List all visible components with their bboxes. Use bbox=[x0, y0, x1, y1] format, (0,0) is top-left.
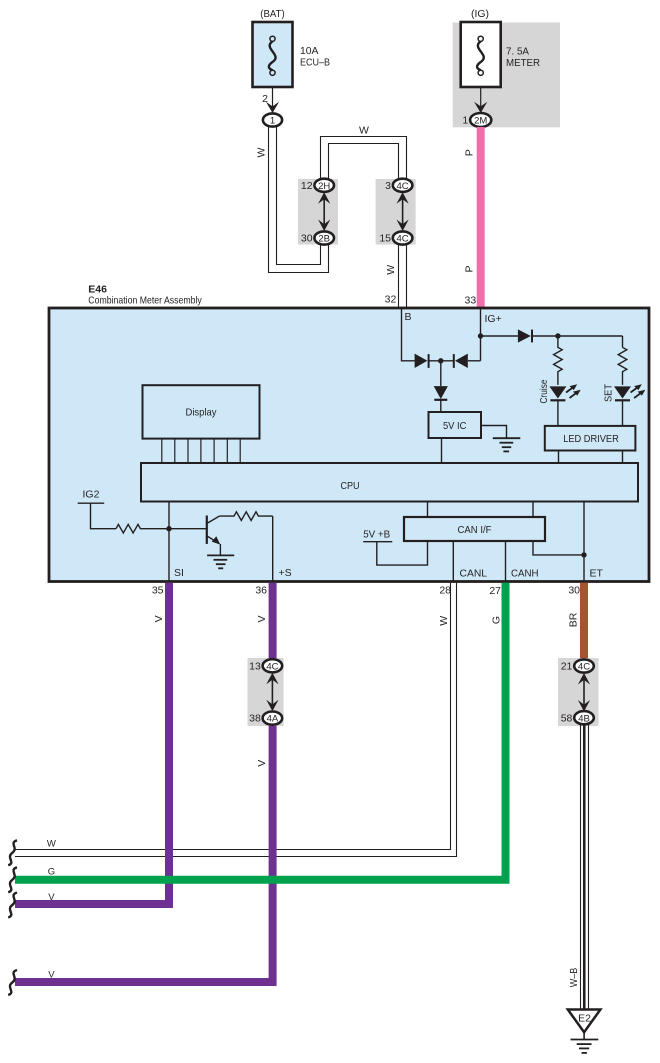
wire W from connector 1 to 2B (white wire) bbox=[269, 127, 329, 273]
CANH wire inside bbox=[505, 541, 507, 582]
svg-text:12: 12 bbox=[301, 180, 313, 192]
IG2 flag bbox=[78, 503, 116, 529]
LED set bbox=[614, 386, 631, 398]
svg-text:38: 38 bbox=[249, 713, 261, 725]
ground E2 bbox=[568, 1010, 601, 1033]
connector block 4C/4A bbox=[248, 658, 284, 726]
svg-text:W: W bbox=[438, 616, 450, 626]
svg-text:SET: SET bbox=[603, 383, 615, 402]
junction node SI bbox=[166, 526, 171, 531]
resistor cruise bbox=[554, 336, 563, 385]
svg-text:2B: 2B bbox=[318, 234, 330, 245]
svg-text:P: P bbox=[464, 265, 476, 272]
wire IG+ to diode D3 bbox=[481, 335, 518, 337]
svg-text:+S: +S bbox=[279, 567, 292, 579]
5V +B flag wire bbox=[363, 541, 427, 565]
wire fuse to connector 1 bbox=[272, 87, 274, 113]
wire W from 4C pin15 to pin 32 (white wire) bbox=[398, 245, 400, 309]
junction node cruise bbox=[555, 333, 560, 338]
connector oval 1 bbox=[263, 113, 282, 126]
connector oval 2B pin 30 bbox=[314, 231, 334, 244]
gray block IG bbox=[453, 23, 560, 128]
svg-text:W: W bbox=[256, 147, 268, 157]
fuse 10A ECU-B bbox=[253, 22, 293, 87]
CPU box bbox=[141, 463, 638, 502]
svg-text:V: V bbox=[256, 760, 268, 767]
svg-text:1: 1 bbox=[462, 115, 468, 127]
wire diode junction bbox=[429, 360, 454, 362]
connector block 2H/2B bbox=[298, 179, 338, 245]
svg-text:IG2: IG2 bbox=[83, 489, 100, 501]
svg-text:4B: 4B bbox=[578, 713, 590, 724]
svg-text:ECU–B: ECU–B bbox=[300, 57, 330, 69]
connector arrows 4C-4A bbox=[271, 677, 273, 708]
svg-text:Display: Display bbox=[186, 407, 218, 419]
svg-text:5V +B: 5V +B bbox=[363, 529, 390, 541]
wire fuse to connector 2M bbox=[480, 87, 482, 113]
svg-text:10A: 10A bbox=[300, 45, 319, 57]
wire V +S purple lower bbox=[15, 718, 273, 982]
svg-text:METER: METER bbox=[506, 57, 540, 69]
svg-text:2M: 2M bbox=[474, 116, 487, 127]
svg-text:36: 36 bbox=[255, 585, 267, 597]
CAN I/F box bbox=[404, 517, 545, 541]
connector oval 4B pin 58 bbox=[574, 711, 594, 724]
svg-text:13: 13 bbox=[249, 660, 261, 672]
wire V SI purple bbox=[15, 583, 169, 904]
display bus lines bbox=[162, 439, 240, 463]
wire CAN I/F to ET bbox=[533, 541, 584, 555]
resistor set bbox=[618, 347, 627, 385]
squiggle connector W bbox=[8, 840, 17, 865]
svg-text:4C: 4C bbox=[397, 234, 409, 245]
svg-text:V: V bbox=[48, 892, 55, 903]
+S wire bbox=[272, 516, 274, 582]
CANL wire inside bbox=[452, 541, 454, 582]
squiggle connector G bbox=[8, 867, 17, 892]
node B wire bbox=[402, 308, 415, 361]
svg-text:Cruise: Cruise bbox=[538, 379, 550, 403]
ground at 5V IC bbox=[481, 426, 507, 439]
svg-text:35: 35 bbox=[152, 585, 164, 597]
wire 5V IC to CPU bbox=[441, 438, 443, 463]
connector arrows 2H-2B bbox=[323, 196, 325, 227]
emitter ground bbox=[219, 544, 221, 556]
svg-text:(BAT): (BAT) bbox=[260, 8, 285, 20]
LED cruise bbox=[549, 386, 566, 398]
svg-text:30: 30 bbox=[568, 585, 580, 597]
diode D3 bbox=[518, 329, 531, 342]
wires LED DRIVER to CPU bbox=[558, 451, 560, 464]
wire W CANL white bbox=[15, 583, 451, 850]
svg-text:V: V bbox=[256, 615, 268, 622]
fuse 7.5A METER bbox=[461, 22, 501, 87]
SI wire bbox=[168, 502, 170, 583]
svg-text:E2: E2 bbox=[578, 1013, 591, 1025]
wire to IG+ line bbox=[468, 360, 481, 362]
connector block 4C/4C bbox=[376, 179, 416, 245]
svg-text:Combination Meter Assembly: Combination Meter Assembly bbox=[88, 295, 202, 307]
svg-text:LED DRIVER: LED DRIVER bbox=[563, 433, 619, 445]
svg-text:28: 28 bbox=[439, 585, 451, 597]
connector arrows 4C-4B bbox=[583, 677, 585, 708]
node IG+ wire bbox=[480, 308, 482, 361]
wire junction to diode D4 bbox=[440, 361, 442, 386]
svg-text:IG+: IG+ bbox=[485, 313, 502, 325]
arrow into connector 2M bbox=[474, 102, 487, 113]
SET branch wire bbox=[622, 336, 624, 347]
svg-text:W–B: W–B bbox=[568, 968, 580, 988]
connector arrows 4C-4C bbox=[402, 196, 404, 227]
5V IC box bbox=[429, 412, 482, 438]
svg-text:G: G bbox=[491, 616, 503, 624]
svg-text:7. 5A: 7. 5A bbox=[506, 46, 529, 58]
svg-text:SI: SI bbox=[174, 567, 184, 579]
svg-text:CANL: CANL bbox=[460, 568, 488, 580]
wire BR ET brown bbox=[580, 583, 588, 666]
squiggle connector V bbox=[8, 893, 17, 918]
connector oval 4C pin 15 bbox=[393, 231, 413, 244]
svg-text:BR: BR bbox=[567, 612, 579, 627]
wire P pink 2M to pin 33 bbox=[477, 127, 485, 309]
svg-text:W: W bbox=[47, 839, 56, 850]
LED DRIVER box bbox=[545, 426, 636, 451]
svg-text:21: 21 bbox=[561, 661, 573, 673]
svg-text:27: 27 bbox=[489, 585, 501, 597]
svg-text:V: V bbox=[48, 970, 55, 981]
svg-text:3: 3 bbox=[385, 180, 391, 192]
svg-text:30: 30 bbox=[301, 233, 313, 245]
svg-text:1: 1 bbox=[270, 116, 275, 127]
connector oval 4A pin 38 bbox=[263, 712, 283, 725]
collector wire and resistor bbox=[219, 512, 272, 521]
diode D1 bbox=[415, 354, 428, 368]
svg-text:15: 15 bbox=[379, 233, 391, 245]
wire V +S purple upper bbox=[269, 583, 277, 666]
combination meter assembly box E46 bbox=[49, 308, 649, 582]
svg-text:2H: 2H bbox=[318, 181, 330, 192]
diode D4 bbox=[434, 386, 448, 399]
svg-text:W: W bbox=[359, 125, 369, 137]
junction node bbox=[438, 358, 443, 363]
svg-text:CAN I/F: CAN I/F bbox=[458, 524, 492, 536]
svg-text:ET: ET bbox=[590, 568, 604, 580]
connector oval 4C pin 3 bbox=[393, 179, 413, 192]
svg-text:5V IC: 5V IC bbox=[443, 420, 467, 432]
wire to 5V IC bbox=[440, 400, 442, 412]
svg-text:4A: 4A bbox=[267, 714, 279, 725]
junction node IG+ bbox=[478, 333, 483, 338]
svg-text:V: V bbox=[153, 615, 165, 622]
svg-text:CANH: CANH bbox=[511, 568, 539, 580]
transistor Q1 bbox=[206, 516, 208, 544]
wire G CANH green bbox=[15, 583, 506, 880]
svg-text:4C: 4C bbox=[578, 662, 590, 673]
connector block 4C/4B bbox=[558, 658, 599, 726]
resistor IG2 bbox=[116, 524, 169, 533]
Display box bbox=[143, 385, 260, 438]
LED set arrows bbox=[631, 387, 639, 393]
squiggle connector V lower bbox=[8, 970, 17, 995]
svg-text:(IG): (IG) bbox=[471, 8, 489, 20]
connector oval 4C pin 21 bbox=[574, 659, 594, 672]
svg-text:32: 32 bbox=[385, 294, 397, 306]
svg-text:CPU: CPU bbox=[341, 480, 360, 492]
connector oval 4C pin 13 bbox=[263, 659, 283, 672]
svg-text:4C: 4C bbox=[266, 661, 278, 672]
wires CPU to CAN I/F bbox=[427, 502, 429, 518]
svg-text:58: 58 bbox=[561, 712, 573, 724]
LED cruise arrows bbox=[566, 387, 574, 393]
arrow into connector 1 bbox=[266, 102, 279, 113]
wire W-B white-black bbox=[580, 724, 582, 1010]
svg-text:B: B bbox=[405, 311, 412, 323]
connector oval 2H pin 12 bbox=[314, 179, 334, 192]
junction node ET bbox=[581, 552, 586, 557]
connector oval 2M pin 1 bbox=[470, 113, 491, 127]
wire to SET branch bbox=[532, 335, 623, 337]
diode D2 bbox=[455, 354, 468, 368]
svg-text:W: W bbox=[385, 265, 397, 275]
svg-text:P: P bbox=[464, 149, 476, 156]
ET wire inside bbox=[583, 502, 585, 583]
svg-text:4C: 4C bbox=[397, 181, 409, 192]
wire W bridge 2H to 4C (white wire) bbox=[321, 137, 407, 180]
svg-text:33: 33 bbox=[465, 295, 477, 307]
svg-text:G: G bbox=[48, 867, 55, 878]
